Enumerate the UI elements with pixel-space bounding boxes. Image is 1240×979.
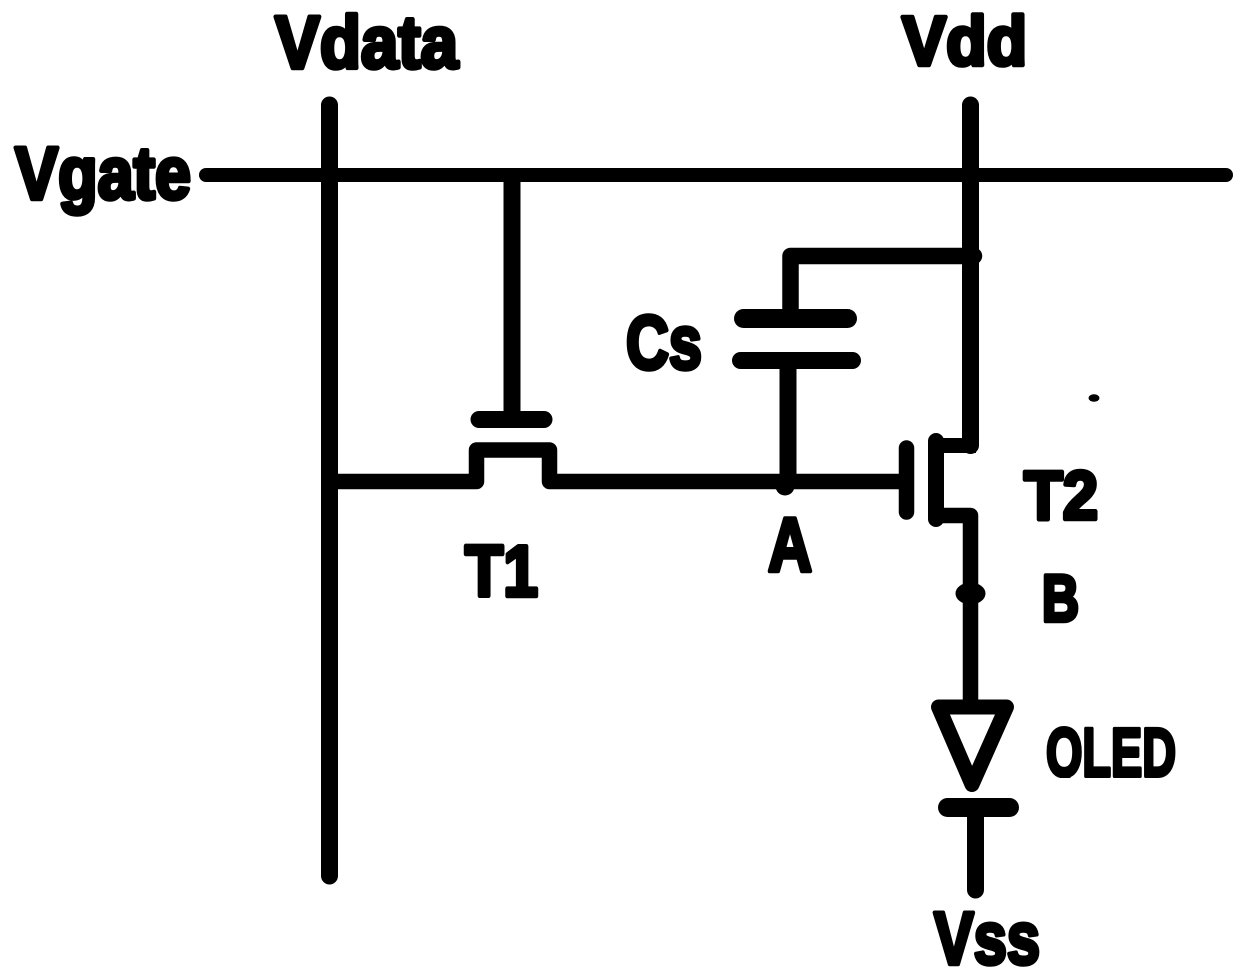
transistor T2 channel bar [928,441,944,519]
node A junction dot [776,477,795,496]
wire Vdd vertical column into T2 drain [962,105,979,446]
transistor T1 gate bar [479,411,544,428]
wire row from Vdata through T1 channel to node A and T2 gate [330,450,906,482]
svg-text:T1: T1 [465,532,538,612]
wire Vgate horizontal row [206,168,1226,182]
svg-text:T2: T2 [1024,457,1098,534]
svg-text:Vgate: Vgate [15,132,191,215]
svg-text:Vdd: Vdd [902,2,1027,80]
wire Vdata vertical column [321,105,338,876]
svg-text:Vss: Vss [934,897,1040,979]
capacitor Cs top plate [744,309,848,328]
diode QLED anode triangle [939,707,1007,785]
wire T1 gate lead from Vgate [504,178,521,415]
diode QLED cathode bar [948,798,1010,817]
capacitor Cs top wire to Vdd [791,256,975,309]
capacitor Cs bottom lead to node A [780,369,797,480]
capacitor Cs bottom plate [741,352,853,369]
svg-text:B: B [1042,561,1079,635]
svg-text:A: A [768,503,812,588]
transistor T2 gate bar [899,448,915,512]
svg-text:Vdata: Vdata [275,1,459,84]
svg-text:Cs: Cs [626,301,702,386]
stray ink speck [1089,394,1100,401]
node B junction dot [956,583,986,605]
wire QLED cathode lead to Vss [967,812,984,890]
wire T2 source stub down to node B [940,516,971,706]
